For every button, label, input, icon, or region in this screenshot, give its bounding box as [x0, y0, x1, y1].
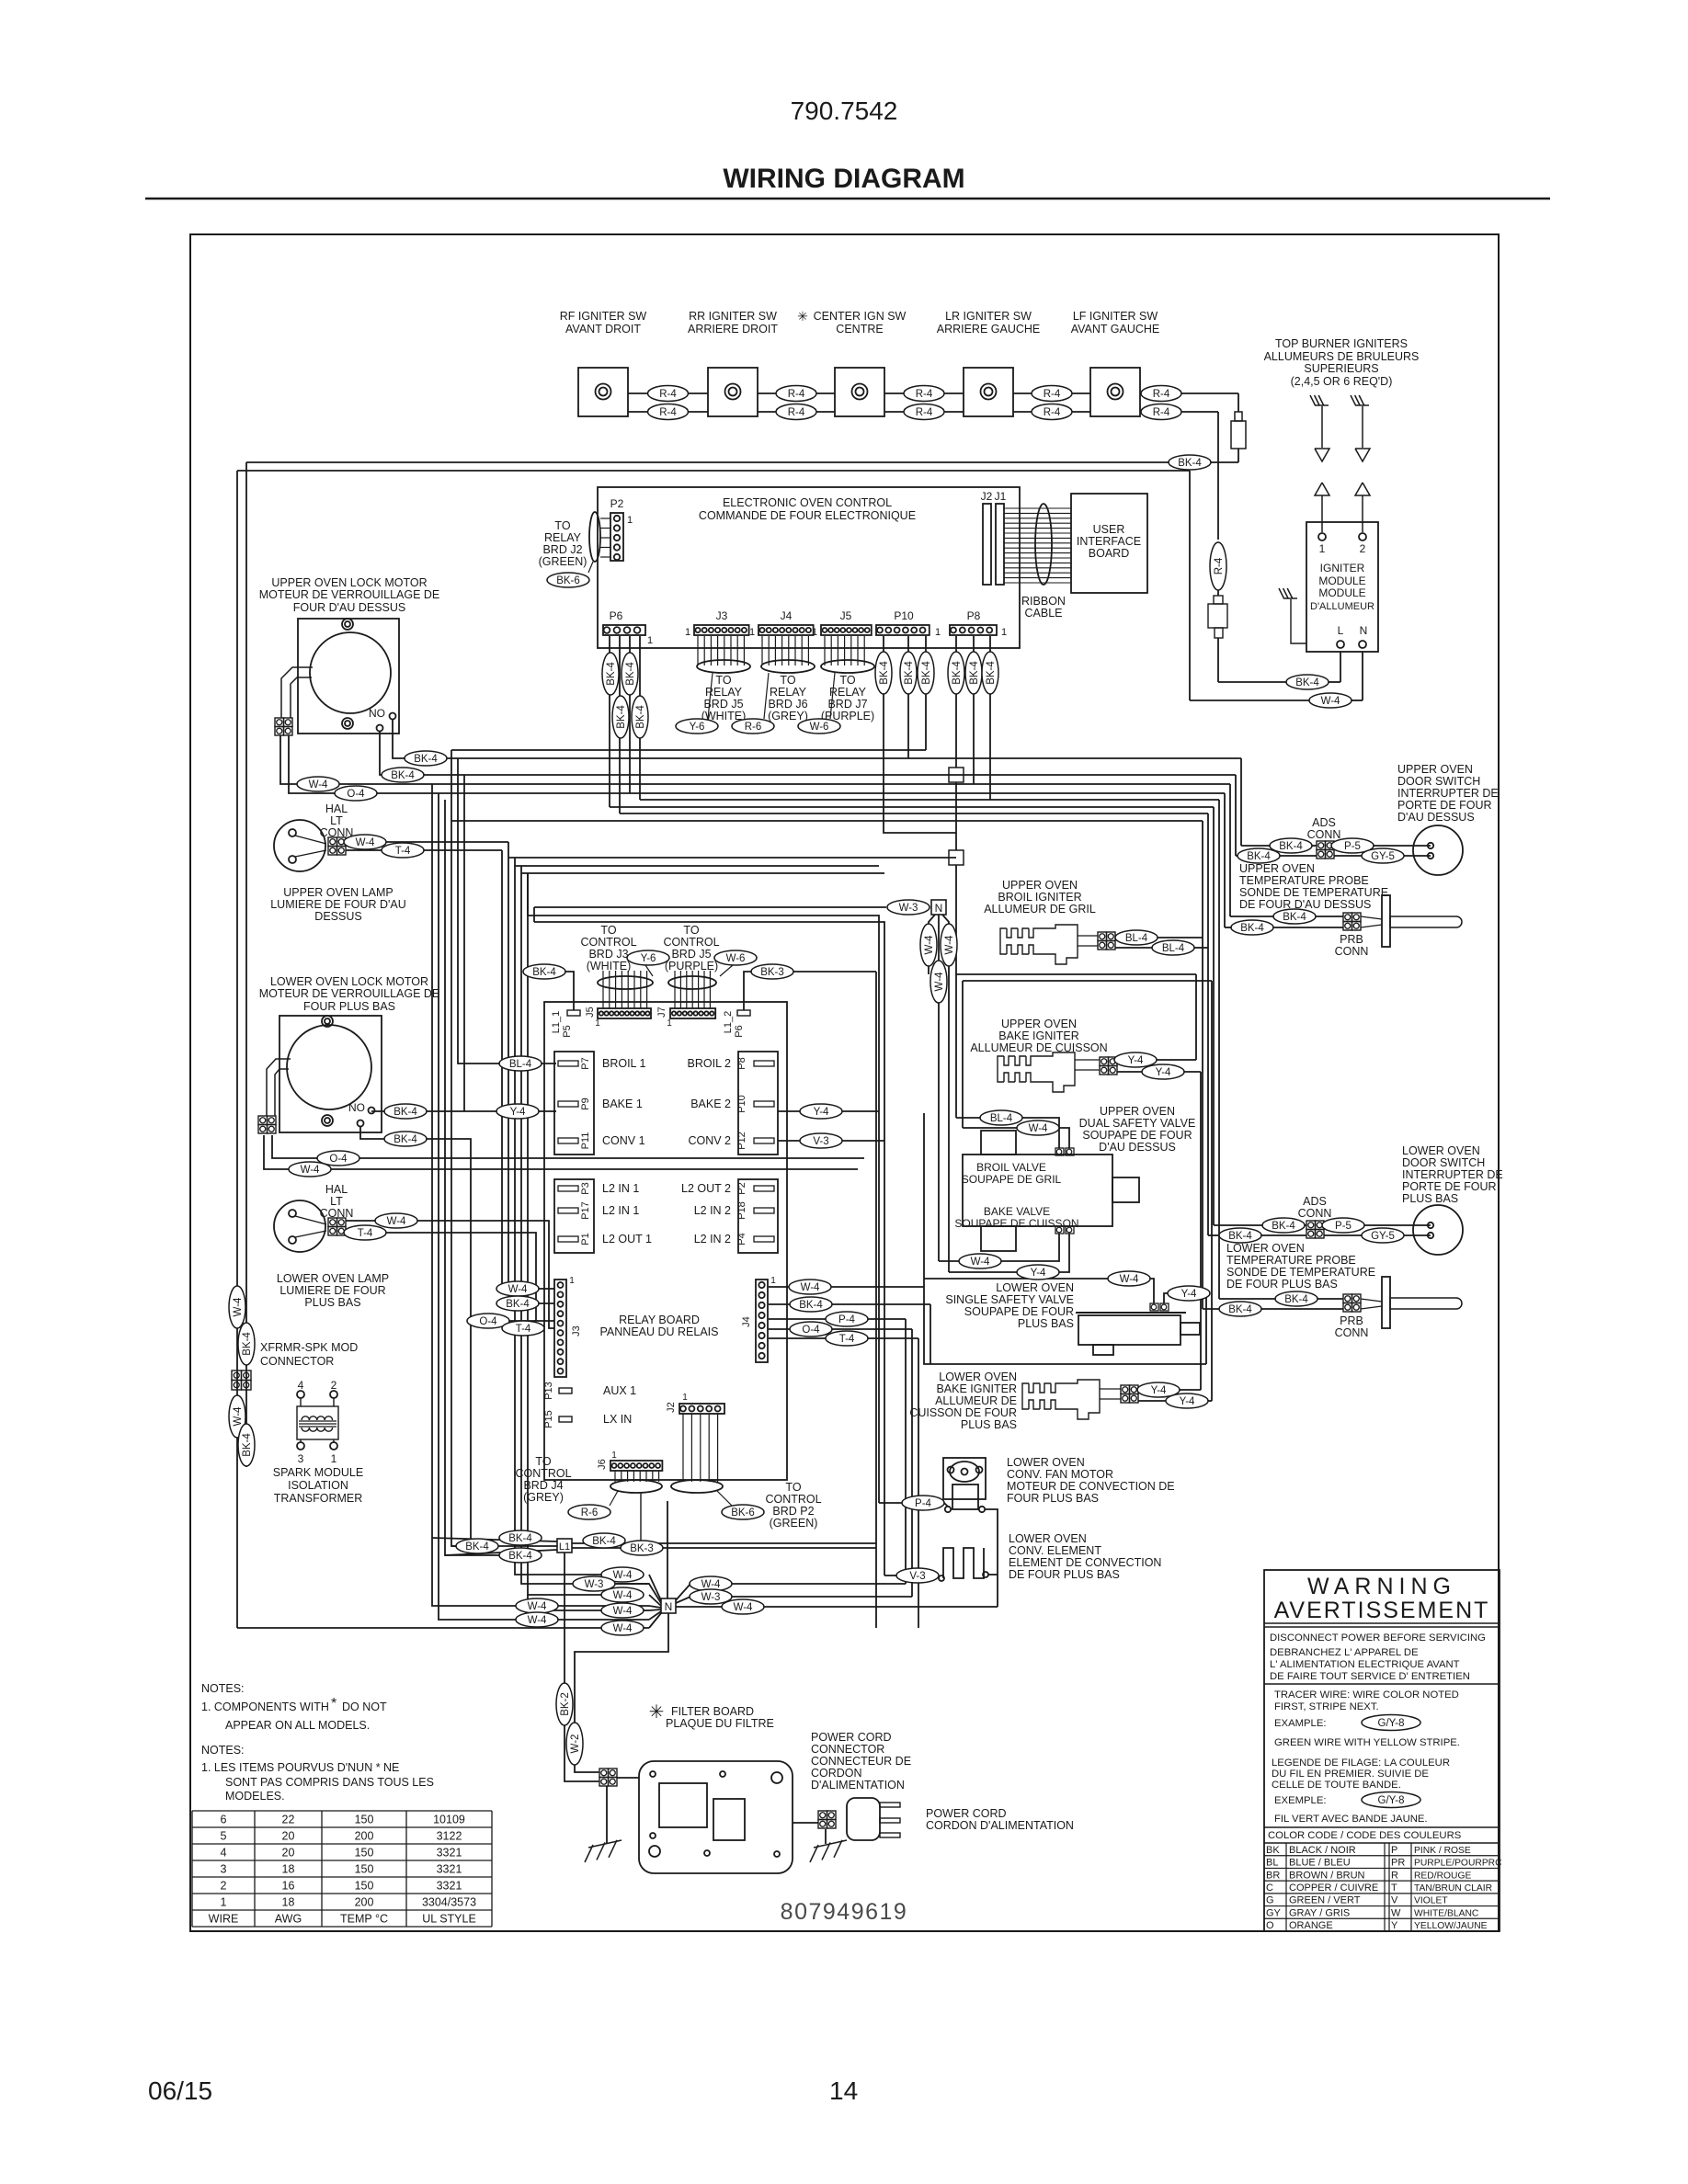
cable bundle to P2: [589, 512, 600, 562]
wire right bus corner: [1224, 793, 1226, 927]
svg-text:RIBBON: RIBBON: [1021, 595, 1066, 608]
svg-text:CUISSON DE FOUR: CUISSON DE FOUR: [909, 1406, 1017, 1419]
svg-text:18: 18: [282, 1896, 295, 1909]
wire W-4 to valve: [1150, 1279, 1154, 1303]
color code table: [1264, 1855, 1500, 1857]
svg-text:Y: Y: [1391, 1920, 1398, 1931]
V-3 label: [800, 1133, 842, 1148]
svg-text:N: N: [1360, 624, 1368, 637]
W-4 label: [722, 1599, 764, 1614]
svg-text:P5: P5: [562, 1025, 573, 1037]
relay contacts P7 P9 P11: [554, 1052, 594, 1155]
svg-text:RR IGNITER SW: RR IGNITER SW: [689, 310, 777, 323]
svg-text:T-4: T-4: [839, 1334, 855, 1345]
G/Y-8 example label 2: [1362, 1792, 1420, 1808]
T-4 label: [826, 1331, 868, 1346]
svg-text:DEBRANCHEZ L' APPAREL DE: DEBRANCHEZ L' APPAREL DE: [1270, 1647, 1419, 1658]
svg-text:ARRIERE DROIT: ARRIERE DROIT: [688, 323, 778, 336]
wire W-4 lower lamp: [346, 1221, 554, 1328]
svg-text:BK-4: BK-4: [635, 705, 646, 729]
svg-text:PR: PR: [1391, 1858, 1405, 1869]
svg-text:✳: ✳: [649, 1702, 665, 1723]
lamp connector lower: [328, 1218, 337, 1227]
svg-text:TO: TO: [554, 519, 570, 532]
svg-text:P-4: P-4: [838, 1314, 856, 1325]
wire bus vC: [445, 800, 501, 1555]
W-3 label: [573, 1576, 615, 1591]
svg-text:CONV. FAN MOTOR: CONV. FAN MOTOR: [1007, 1468, 1113, 1481]
svg-text:(WHITE): (WHITE): [587, 960, 632, 973]
wire O-4 from lock motor: [289, 735, 1225, 793]
W-4 label: [229, 1395, 245, 1438]
svg-text:P10: P10: [894, 609, 914, 622]
valve terminals bottom: [1055, 1226, 1064, 1234]
svg-text:1: 1: [812, 627, 817, 638]
svg-text:D'ALIMENTATION: D'ALIMENTATION: [811, 1779, 905, 1792]
svg-text:LOWER OVEN LOCK MOTOR: LOWER OVEN LOCK MOTOR: [270, 975, 428, 988]
svg-text:CONV 2: CONV 2: [688, 1134, 731, 1147]
svg-text:MOTEUR DE VERROUILLAGE DE: MOTEUR DE VERROUILLAGE DE: [259, 987, 440, 1000]
svg-text:BAKE 2: BAKE 2: [690, 1098, 731, 1110]
W-3 label: [887, 900, 930, 915]
BK-4 label: [499, 1530, 542, 1545]
svg-text:O-4: O-4: [802, 1325, 820, 1336]
wire valve bottom stub: [930, 1304, 931, 1364]
wire element right: [988, 1574, 998, 1575]
W-4 label: [920, 924, 937, 966]
wire J6 to L1 row: [640, 1494, 642, 1548]
relay board: [544, 1002, 787, 1480]
wire long horizontal W bus y=512: [237, 470, 1190, 472]
svg-text:INTERRUPTER DE: INTERRUPTER DE: [1402, 1168, 1503, 1181]
wire row 942: [515, 865, 879, 867]
R-4 label upper: [904, 386, 944, 402]
wire row 950: [521, 872, 884, 874]
wires relay J5 up: [602, 971, 604, 1008]
wire W-4 J4 row: [769, 1286, 924, 1288]
svg-text:FIL VERT AVEC BANDE JA: FIL VERT AVEC BANDE JAUNE.: [1274, 1814, 1428, 1825]
relay J2 connector: [679, 1404, 724, 1414]
svg-text:TO: TO: [600, 924, 616, 937]
lamp connector: [328, 837, 337, 847]
svg-text:6: 6: [221, 1814, 227, 1826]
svg-text:BK-4: BK-4: [1279, 841, 1303, 852]
svg-text:AVANT DROIT: AVANT DROIT: [565, 323, 641, 336]
svg-text:P9: P9: [580, 1098, 591, 1109]
svg-text:BL-4: BL-4: [1162, 943, 1185, 954]
svg-text:FOUR PLUS BAS: FOUR PLUS BAS: [1007, 1492, 1099, 1505]
wire bus vF: [463, 775, 465, 1111]
W-4 label: [930, 961, 947, 1003]
BK-4 label: [405, 751, 447, 766]
P-5 label: [1331, 838, 1374, 853]
wire right bus corner: [1213, 807, 1215, 1225]
svg-text:INTERRUPTER DE: INTERRUPTER DE: [1397, 787, 1499, 800]
svg-text:LOWER OVEN: LOWER OVEN: [996, 1281, 1074, 1294]
svg-text:1: 1: [770, 1276, 776, 1286]
svg-text:BROIL IGNITER: BROIL IGNITER: [998, 891, 1081, 904]
svg-text:UPPER OVEN: UPPER OVEN: [1397, 763, 1473, 776]
svg-text:PLUS BAS: PLUS BAS: [1018, 1317, 1074, 1330]
wire W-3 to N: [534, 906, 886, 908]
R-4 label lower: [1141, 404, 1181, 420]
svg-text:L2 IN 1: L2 IN 1: [602, 1204, 639, 1217]
wire P-4 J4 row: [769, 1318, 906, 1320]
svg-text:NO: NO: [348, 1101, 365, 1114]
svg-text:PLAQUE DU FILTRE: PLAQUE DU FILTRE: [666, 1717, 774, 1730]
svg-text:BLUE / BLEU: BLUE / BLEU: [1289, 1858, 1351, 1869]
ribbon cable: [1004, 507, 1071, 509]
wire BK-4 lower motor 2: [360, 1126, 471, 1546]
svg-text:BK-4: BK-4: [1240, 923, 1264, 934]
svg-text:PORTE DE FOUR: PORTE DE FOUR: [1402, 1180, 1497, 1193]
svg-text:TO: TO: [683, 924, 699, 937]
svg-text:Y-4: Y-4: [1156, 1067, 1171, 1078]
svg-text:TRANSFORMER: TRANSFORMER: [274, 1492, 363, 1505]
svg-text:R-4: R-4: [1214, 557, 1225, 574]
svg-text:L: L: [1338, 624, 1344, 637]
wires J2 down: [682, 1414, 684, 1482]
W-4 label: [516, 1612, 558, 1627]
svg-text:PRB: PRB: [1340, 1314, 1363, 1327]
W-4 label: [289, 1162, 331, 1177]
svg-text:1: 1: [569, 1276, 575, 1286]
svg-text:TEMPERATURE PROBE: TEMPERATURE PROBE: [1239, 874, 1369, 887]
wire W-4 lower motor: [264, 1135, 858, 1169]
svg-text:PANNEAU DU RELAIS: PANNEAU DU RELAIS: [600, 1325, 719, 1338]
inline connector on igniter wire: [1214, 596, 1223, 604]
svg-text:BL-4: BL-4: [990, 1113, 1013, 1124]
Y-4 label: [1168, 1286, 1210, 1301]
svg-text:O-4: O-4: [479, 1316, 497, 1327]
relay J6 connector: [610, 1461, 662, 1471]
wire igniter row lower: [628, 411, 708, 413]
svg-text:P4: P4: [736, 1233, 747, 1245]
svg-text:BROIL 2: BROIL 2: [688, 1057, 732, 1070]
svg-text:150: 150: [355, 1847, 374, 1860]
svg-text:DE FOUR PLUS BAS: DE FOUR PLUS BAS: [1009, 1568, 1120, 1581]
svg-text:BAKE 1: BAKE 1: [602, 1098, 643, 1110]
upper oven dual safety valve: [963, 1155, 1112, 1226]
relay J3 connector: [554, 1280, 566, 1377]
svg-text:CENTER IGN SW: CENTER IGN SW: [814, 310, 907, 323]
W-4 label: [959, 1254, 1001, 1268]
svg-text:T-4: T-4: [395, 846, 411, 857]
BK-4 label: [1286, 675, 1329, 689]
svg-text:GREEN / VERT: GREEN / VERT: [1289, 1895, 1361, 1906]
wire right bus corner: [1235, 775, 1237, 856]
svg-text:1: 1: [935, 627, 941, 638]
connector P15 LX IN: [559, 1416, 572, 1422]
svg-text:ELECTRONIC OVEN CONTROL: ELECTRONIC OVEN CONTROL: [723, 496, 892, 509]
wire N down: [575, 1613, 668, 1772]
top burner igniter electrode: [1315, 404, 1329, 406]
wire long bottom row: [237, 1627, 649, 1629]
svg-text:3122: 3122: [437, 1830, 462, 1843]
svg-text:10109: 10109: [433, 1814, 465, 1826]
svg-text:BRD J6: BRD J6: [768, 698, 807, 711]
BK-4 label: [583, 1533, 625, 1548]
svg-text:ELEMENT DE CONVECTION: ELEMENT DE CONVECTION: [1009, 1556, 1161, 1569]
igniter module ground electrode: [1283, 597, 1297, 599]
svg-text:RELAY: RELAY: [770, 686, 807, 699]
svg-text:J7: J7: [656, 1007, 667, 1018]
svg-text:J5: J5: [840, 609, 852, 622]
svg-text:G/Y-8: G/Y-8: [1378, 1718, 1405, 1729]
svg-text:L1_1: L1_1: [551, 1011, 562, 1033]
svg-text:14: 14: [829, 2076, 858, 2105]
wire BK-4 from motor NO: [393, 719, 1241, 758]
svg-text:P8: P8: [967, 609, 981, 622]
wire to ADS: [1241, 845, 1270, 847]
svg-text:CORDON D'ALIMENTATION: CORDON D'ALIMENTATION: [926, 1819, 1074, 1832]
relay contacts P8 P10 P12: [738, 1052, 778, 1155]
wire L1 to right: [572, 1542, 876, 1544]
svg-text:USER: USER: [1093, 523, 1125, 536]
svg-text:P-5: P-5: [1344, 841, 1361, 852]
svg-text:(PURPLE): (PURPLE): [665, 960, 718, 973]
svg-text:BK-4: BK-4: [904, 661, 915, 685]
svg-text:BK-4: BK-4: [465, 1541, 489, 1553]
BK-4 label: [1262, 1218, 1305, 1233]
svg-text:BK-4: BK-4: [879, 661, 890, 685]
svg-text:XFRMR-SPK MOD: XFRMR-SPK MOD: [260, 1341, 358, 1354]
BK-4 label: [1237, 848, 1280, 863]
svg-text:LOWER OVEN: LOWER OVEN: [1226, 1242, 1305, 1255]
svg-text:V-3: V-3: [909, 1571, 925, 1582]
svg-text:W-4: W-4: [508, 1284, 528, 1295]
svg-text:W-4: W-4: [734, 1602, 753, 1613]
svg-text:TAN/BRUN CLAIR: TAN/BRUN CLAIR: [1414, 1883, 1492, 1894]
svg-text:WIRING DIAGRAM: WIRING DIAGRAM: [723, 164, 964, 194]
svg-text:(GREEN): (GREEN): [539, 555, 587, 568]
svg-text:W-4: W-4: [613, 1623, 633, 1634]
svg-text:BL-4: BL-4: [1125, 933, 1148, 944]
svg-text:L2 IN 2: L2 IN 2: [694, 1233, 731, 1246]
svg-text:W-6: W-6: [726, 953, 746, 964]
svg-text:SOUPAPE DE FOUR: SOUPAPE DE FOUR: [964, 1305, 1074, 1318]
svg-text:W-4: W-4: [944, 935, 955, 954]
svg-text:P13: P13: [543, 1382, 554, 1400]
svg-text:PLUS BAS: PLUS BAS: [961, 1418, 1017, 1431]
PRB connector lower: [1343, 1294, 1352, 1303]
svg-text:R-4: R-4: [659, 407, 677, 418]
Y-4 label: [496, 1104, 539, 1119]
svg-text:NOTES:: NOTES:: [201, 1744, 245, 1757]
svg-text:J6: J6: [597, 1459, 608, 1470]
BK-4 label: [499, 1548, 542, 1563]
BK-4 label: [1270, 838, 1312, 853]
motor connector block: [258, 1116, 268, 1125]
svg-text:BRD J7: BRD J7: [827, 698, 867, 711]
W-4 label: [518, 1288, 554, 1290]
spark module isolation transformer T1: [297, 1391, 304, 1398]
wire to lower probe: [1219, 1298, 1275, 1300]
lower oven bake igniter: [1022, 1383, 1029, 1394]
ground symbol: [588, 1840, 622, 1848]
svg-text:ISOLATION: ISOLATION: [288, 1479, 348, 1492]
BK-4 label: [384, 1104, 427, 1119]
wire row 870: [640, 799, 1219, 801]
svg-text:DUAL SAFETY VALVE: DUAL SAFETY VALVE: [1079, 1117, 1196, 1130]
R-4 label upper: [1141, 386, 1181, 402]
svg-text:NOTES:: NOTES:: [201, 1682, 245, 1695]
G/Y-8 example label: [1362, 1715, 1420, 1731]
wire BK-4 from motor NO 2: [380, 731, 1236, 775]
svg-text:LX IN: LX IN: [603, 1413, 632, 1426]
svg-text:W-4: W-4: [934, 972, 945, 991]
BK-6 label: [722, 1505, 764, 1519]
svg-text:UPPER OVEN LAMP: UPPER OVEN LAMP: [283, 886, 393, 899]
svg-text:W-2: W-2: [570, 1735, 581, 1754]
svg-text:T-4: T-4: [358, 1228, 373, 1239]
wire Y-4 valve bottom: [949, 1234, 1069, 1272]
svg-text:MODULE: MODULE: [1318, 574, 1365, 587]
svg-text:L2 OUT 1: L2 OUT 1: [602, 1233, 652, 1246]
svg-text:W-4: W-4: [1029, 1123, 1048, 1134]
wire row 996: [528, 916, 879, 1503]
wires under P10: [884, 636, 956, 833]
wires to relay board bundle: [697, 636, 699, 665]
svg-text:NO: NO: [369, 707, 385, 720]
svg-text:G: G: [1266, 1895, 1274, 1906]
wire BK-4 L1 row1: [432, 1538, 557, 1541]
svg-text:GY-5: GY-5: [1371, 1231, 1395, 1242]
svg-text:WARNING: WARNING: [1307, 1574, 1456, 1599]
svg-text:P7: P7: [580, 1057, 591, 1069]
svg-text:LUMIERE DE FOUR: LUMIERE DE FOUR: [279, 1284, 385, 1297]
svg-text:VIOLET: VIOLET: [1414, 1896, 1448, 1906]
svg-text:1: 1: [682, 1393, 688, 1403]
svg-text:CONN: CONN: [1335, 945, 1369, 958]
svg-text:MOTEUR DE CONVECTION DE: MOTEUR DE CONVECTION DE: [1007, 1480, 1175, 1493]
wire bus vK: [528, 873, 602, 1595]
svg-text:J4: J4: [741, 1316, 752, 1327]
svg-text:BK-2: BK-2: [560, 1692, 571, 1716]
svg-text:PURPLE/POURPRC: PURPLE/POURPRC: [1414, 1859, 1502, 1869]
svg-text:W-4: W-4: [701, 1579, 721, 1590]
svg-text:18: 18: [282, 1863, 295, 1876]
PRB connector upper: [1343, 913, 1352, 922]
upper temperature probe: [1361, 916, 1382, 919]
svg-text:P15: P15: [543, 1410, 554, 1428]
top burner igniter electrode: [1355, 404, 1369, 406]
wire bake igniter supply: [1195, 974, 1197, 1060]
node N mid: [931, 900, 946, 915]
svg-text:EXAMPLE:: EXAMPLE:: [1274, 1718, 1327, 1729]
svg-text:AVERTISSEMENT: AVERTISSEMENT: [1274, 1598, 1490, 1623]
svg-text:CONV. ELEMENT: CONV. ELEMENT: [1009, 1544, 1101, 1557]
svg-text:SONDE DE TEMPERATURE: SONDE DE TEMPERATURE: [1226, 1266, 1375, 1279]
wire to probe 2: [1225, 927, 1231, 928]
wire igniter row upper: [884, 392, 964, 394]
svg-text:R-4: R-4: [916, 407, 933, 418]
wire connector to filter board: [617, 1777, 639, 1779]
wire right bus corner: [1207, 813, 1209, 1235]
R-6 label: [732, 719, 774, 734]
svg-text:BK-4: BK-4: [606, 662, 617, 686]
svg-text:BK-4: BK-4: [1247, 851, 1271, 862]
BL-4 label: [980, 1110, 1022, 1125]
svg-text:AVANT GAUCHE: AVANT GAUCHE: [1071, 323, 1160, 336]
wire igniter row lower: [758, 411, 835, 413]
svg-text:W-4: W-4: [528, 1601, 547, 1612]
svg-text:SUPERIEURS: SUPERIEURS: [1304, 362, 1378, 375]
svg-text:W-3: W-3: [899, 903, 918, 914]
svg-text:HAL: HAL: [325, 1183, 348, 1196]
wire bus vB: [439, 793, 649, 1620]
svg-text:L2 IN 1: L2 IN 1: [602, 1182, 639, 1195]
svg-text:J4: J4: [781, 609, 793, 622]
svg-text:DISCONNECT POWER BEFORE SERVIC: DISCONNECT POWER BEFORE SERVICING: [1270, 1632, 1486, 1644]
svg-text:P6: P6: [734, 1025, 745, 1037]
svg-text:POWER CORD: POWER CORD: [811, 1731, 892, 1744]
svg-text:R-4: R-4: [1153, 389, 1170, 400]
wire igniter row lower: [1140, 411, 1218, 413]
svg-text:COPPER / CUIVRE: COPPER / CUIVRE: [1289, 1883, 1378, 1894]
svg-text:(GREEN): (GREEN): [770, 1517, 818, 1530]
svg-text:1. LES ITEMS POURVUS D'NUN *: 1. LES ITEMS POURVUS D'NUN * NE: [201, 1761, 399, 1774]
wire to lower ADS: [1214, 1224, 1262, 1226]
R-4 label upper: [648, 386, 689, 402]
svg-text:CONN: CONN: [1335, 1326, 1369, 1339]
BK-4 label: [384, 1132, 427, 1146]
W-4 label: [516, 1598, 558, 1613]
svg-text:R-4: R-4: [1153, 407, 1170, 418]
svg-text:3: 3: [221, 1863, 227, 1876]
svg-text:BAKE VALVE: BAKE VALVE: [984, 1205, 1050, 1218]
svg-text:Y-4: Y-4: [1180, 1396, 1195, 1407]
svg-text:BK-6: BK-6: [556, 575, 580, 586]
svg-text:4: 4: [221, 1847, 227, 1860]
svg-text:PRB: PRB: [1340, 933, 1363, 946]
svg-text:R-4: R-4: [659, 389, 677, 400]
svg-text:LOWER OVEN: LOWER OVEN: [1007, 1456, 1085, 1469]
relay J5 connector: [598, 1008, 651, 1018]
svg-text:CONTROL: CONTROL: [663, 936, 719, 949]
lower oven conv fan motor M3: [943, 1458, 986, 1499]
svg-text:L' ALIMENTATION ELECTRIQUE: L' ALIMENTATION ELECTRIQUE AVANT: [1270, 1659, 1460, 1670]
broil igniter connector: [1098, 932, 1107, 941]
svg-text:LOWER OVEN LAMP: LOWER OVEN LAMP: [277, 1272, 389, 1285]
wire P-4 to fan: [879, 1502, 902, 1504]
svg-text:W-4: W-4: [233, 1297, 244, 1316]
power cord plug: [847, 1798, 880, 1840]
svg-text:EXEMPLE:: EXEMPLE:: [1274, 1795, 1327, 1806]
wire LF switch lower to igniter module: [1217, 412, 1219, 540]
svg-text:1: 1: [611, 1450, 617, 1461]
svg-text:BK-4: BK-4: [592, 1536, 616, 1547]
svg-text:Y-4: Y-4: [1151, 1385, 1167, 1396]
svg-text:BK-4: BK-4: [1283, 912, 1306, 923]
T-4 label: [502, 1321, 544, 1336]
svg-text:P1: P1: [580, 1233, 591, 1245]
wire bus vL: [533, 907, 535, 922]
svg-text:MOTEUR DE VERROUILLAGE DE: MOTEUR DE VERROUILLAGE DE: [259, 588, 440, 601]
svg-text:P-5: P-5: [1335, 1221, 1352, 1232]
svg-text:APPEAR ON ALL MODELS.: APPEAR ON ALL MODELS.: [225, 1719, 370, 1732]
svg-text:IGNITER: IGNITER: [1320, 562, 1365, 574]
motor connector block: [275, 718, 284, 727]
svg-text:2: 2: [331, 1379, 337, 1392]
connector P5 L1_1: [567, 1010, 580, 1016]
svg-text:TO: TO: [839, 674, 855, 687]
svg-text:LF IGNITER SW: LF IGNITER SW: [1073, 310, 1158, 323]
electronic oven control board: [598, 487, 1020, 648]
svg-text:SONDE DE TEMPERATURE: SONDE DE TEMPERATURE: [1239, 886, 1388, 899]
svg-text:Y-4: Y-4: [1128, 1055, 1144, 1066]
W-6 label: [798, 719, 840, 734]
